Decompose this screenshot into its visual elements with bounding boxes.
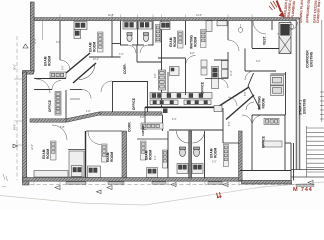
svg-text:9'-0": 9'-0": [155, 155, 157, 160]
exam C right wall x168: [167, 131, 169, 178]
waiting room right wall x228: [214, 21, 228, 62]
svg-text:ROOM: ROOM: [93, 42, 97, 52]
upper stair flight far right: [320, 20, 324, 122]
tlt sink counters: [123, 22, 137, 30]
svg-text:EXISTING: EXISTING: [310, 51, 314, 67]
left wall jog: [23, 71, 34, 75]
svg-text:10'-4": 10'-4": [93, 59, 99, 61]
scan marks left edge: [2, 174, 8, 187]
svg-text:VEST.: VEST.: [263, 36, 267, 45]
svg-text:COPIER: COPIER: [141, 125, 145, 136]
shaft with X: [279, 23, 291, 54]
tlt pair bottom center: [169, 130, 223, 178]
tlt fixtures: [180, 147, 200, 157]
office1: [65, 90, 67, 119]
svg-text:6'-8": 6'-8": [245, 91, 247, 96]
exam2 door arc: [60, 60, 70, 70]
right existing walls bottom: [291, 170, 324, 178]
exam A walls: [85, 131, 87, 178]
svg-text:OFFICE: OFFICE: [262, 136, 266, 148]
office1 desk squares: [55, 92, 61, 116]
main mid wall dark: [145, 106, 222, 108]
lab casework center: [150, 93, 212, 105]
svg-text:22'-8": 22'-8": [108, 15, 114, 17]
corridor bottom diagonal: [66, 112, 101, 122]
svg-text:7'-2": 7'-2": [119, 54, 124, 56]
wall exam1/exam2 x60: [59, 21, 61, 60]
exam D walls: [222, 108, 224, 143]
exam3 counter: [160, 22, 170, 30]
exam2 corner counter: [74, 22, 87, 30]
svg-text:6'-0": 6'-0": [140, 117, 145, 119]
toilets: [127, 33, 149, 42]
corridor bottom hatched left: [30, 119, 66, 122]
svg-text:17'-0": 17'-0": [35, 38, 37, 44]
svg-text:4'-0": 4'-0": [86, 111, 91, 113]
svg-text:5'-4": 5'-4": [172, 119, 177, 121]
svg-text:3'-2": 3'-2": [212, 162, 217, 164]
svg-text:ROOM: ROOM: [194, 37, 198, 47]
right suite wall: [296, 20, 300, 171]
top exterior wall: [33, 18, 299, 21]
svg-text:OFFICE: OFFICE: [132, 98, 136, 110]
diagonal corridor walls left: [66, 53, 90, 73]
fixtures block left-center: [159, 67, 180, 91]
closet shelf col: [155, 25, 160, 43]
dimension triangles: [13, 44, 313, 194]
dimension dashed lines: [17, 36, 310, 185]
svg-text:OFFICE: OFFICE: [48, 100, 52, 112]
svg-text:OFFICE: OFFICE: [201, 82, 205, 94]
keynote bubble: [289, 24, 293, 28]
left exterior wall lower: [23, 72, 27, 181]
svg-text:3'-8": 3'-8": [60, 127, 65, 129]
exam1 cabinets bottom: [50, 72, 66, 78]
svg-text:24'-6": 24'-6": [15, 124, 17, 130]
waiting bottom wall: [185, 58, 187, 95]
corridor doors arcs: [36, 79, 112, 99]
svg-text:11'-2": 11'-2": [231, 70, 233, 76]
label side squares columns: [51, 30, 229, 167]
svg-text:3'-0": 3'-0": [56, 42, 61, 44]
svg-text:14'-6": 14'-6": [196, 15, 202, 17]
svg-text:M 744: M 744: [293, 187, 313, 193]
corridor bottom hatched mid: [100, 112, 162, 115]
exam A cabinets + sink: [34, 151, 84, 177]
right office: [240, 115, 294, 180]
svg-text:3'-0": 3'-0": [256, 61, 261, 63]
vest walls: [245, 21, 279, 71]
entry door arcs: [228, 21, 290, 51]
svg-text:8'-6": 8'-6": [229, 121, 231, 126]
bottom exterior wall: [23, 178, 243, 182]
svg-text:3'-6": 3'-6": [155, 73, 157, 78]
diag door arc: [79, 64, 95, 80]
left exterior wall upper: [30, 2, 34, 72]
fold crease bottom: [0, 182, 324, 205]
svg-text:ROOM: ROOM: [110, 152, 114, 162]
exam C casework: [147, 150, 168, 178]
hatched wall x239: [239, 131, 243, 181]
svg-text:8'-0": 8'-0": [190, 53, 195, 55]
exam3 walls: [158, 21, 186, 58]
exam2 right wall x112: [111, 21, 113, 57]
red stamp: [217, 0, 322, 198]
svg-text:ROOM: ROOM: [262, 98, 266, 108]
bottom wall step right: [242, 180, 292, 184]
hatched vertical wall x122: [122, 131, 127, 178]
arcs near vest bottom: [245, 71, 254, 110]
red handwriting: [269, 1, 277, 10]
shelf room above exam C: [137, 138, 168, 140]
red arrow: [277, 1, 282, 13]
svg-text:ROOM: ROOM: [46, 149, 50, 159]
svg-text:ROOM: ROOM: [173, 37, 177, 47]
waiting chairs top: [206, 21, 212, 32]
stair treads: [307, 126, 324, 177]
exam1 extras: [42, 21, 44, 40]
window sill tabs below bottom wall: [66, 182, 314, 187]
waiting room2 walls: [248, 72, 286, 115]
office desk row: [263, 118, 282, 147]
svg-text:12'-6": 12'-6": [32, 144, 34, 150]
couch rects: [271, 76, 284, 96]
exam1 bottom wall y78.5: [34, 78, 66, 80]
extension ticks: [14, 15, 252, 186]
svg-text:9'-6": 9'-6": [63, 65, 65, 70]
svg-text:36'-0": 36'-0": [15, 64, 17, 70]
keynote bubble2: [238, 28, 243, 33]
svg-text:CORR.: CORR.: [128, 121, 132, 132]
corridor right wall x161.5: [161, 21, 163, 107]
svg-text:ROOM: ROOM: [48, 56, 52, 66]
svg-text:ROOM: ROOM: [149, 150, 153, 160]
tlt rooms walls: [112, 21, 162, 62]
exam B: [88, 132, 101, 145]
svg-text:CORR.: CORR.: [123, 63, 127, 74]
svg-text:EXISTING: EXISTING: [303, 98, 307, 114]
tlt door arcs: [128, 45, 148, 53]
dark bar fixture center: [212, 67, 219, 89]
diagonal corridor walls right: [216, 87, 254, 120]
tiny dimension texts: [15, 15, 261, 164]
svg-text:ROOM: ROOM: [214, 148, 218, 158]
exam2 bottom wall y57: [89, 56, 121, 58]
